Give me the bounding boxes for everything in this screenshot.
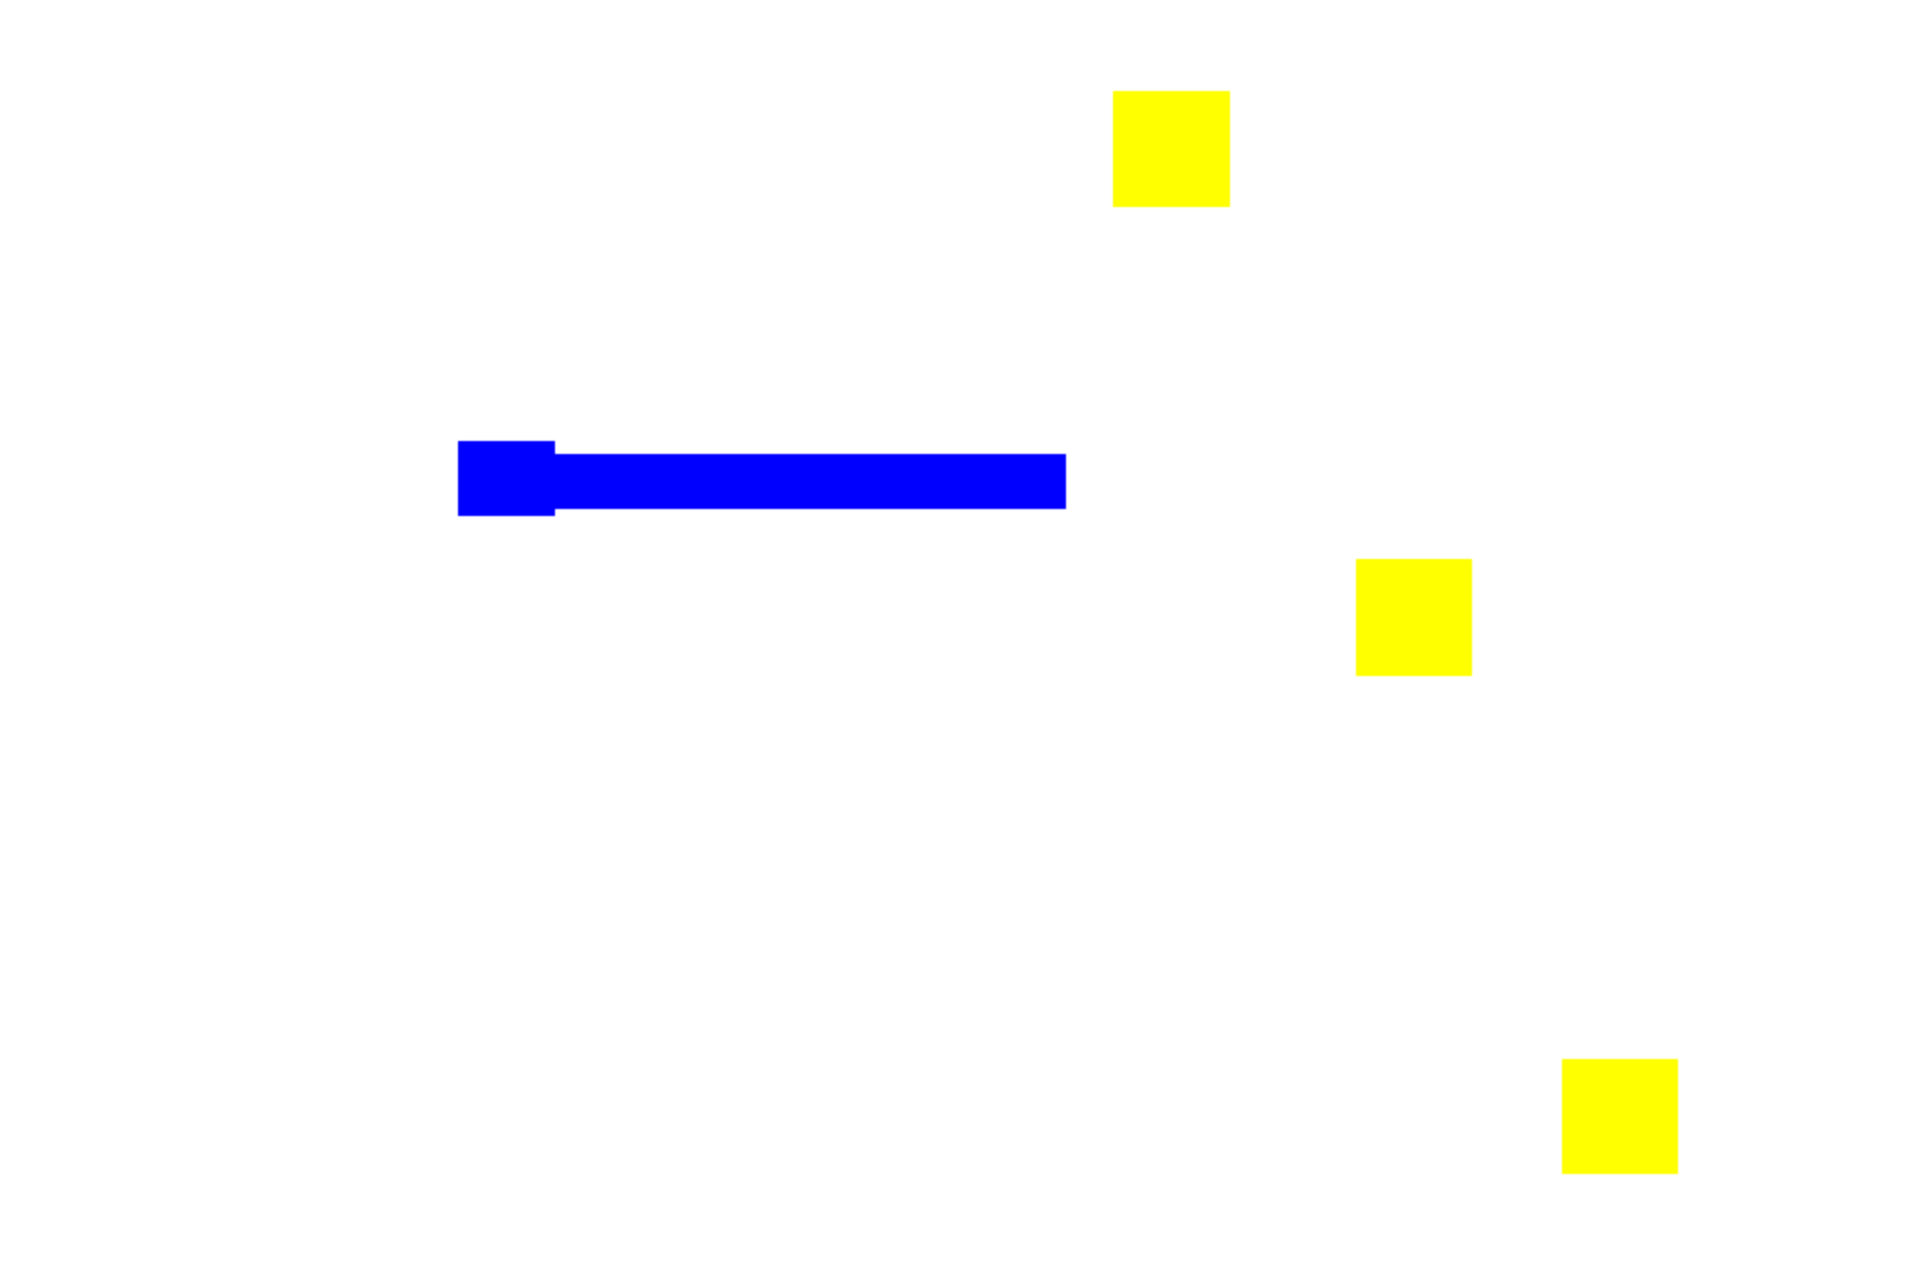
blue player block — [458, 441, 555, 516]
yellow square 3 (bottom right) — [1562, 1059, 1678, 1174]
yellow square 2 (middle right) — [1356, 559, 1472, 676]
blue beam bar — [545, 454, 1066, 509]
yellow square 1 (top middle) — [1113, 91, 1230, 207]
